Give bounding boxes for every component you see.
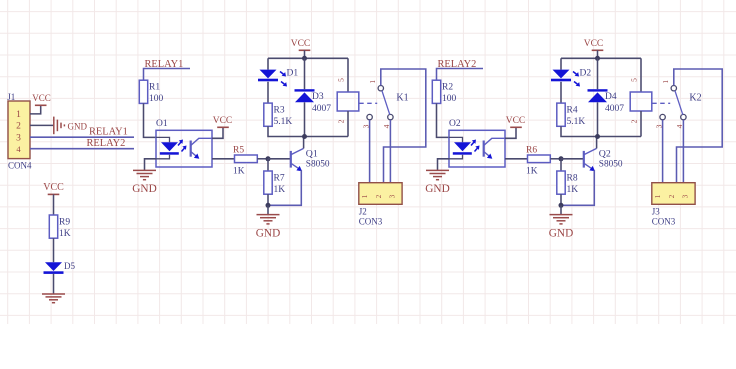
- svg-text:VCC: VCC: [213, 116, 233, 126]
- wire ground node down: [560, 205, 562, 214]
- junction ground node: [266, 203, 271, 208]
- svg-text:1K: 1K: [274, 185, 286, 195]
- svg-text:3: 3: [16, 134, 21, 144]
- LED D2: [551, 69, 591, 87]
- wire opto collector to VCC: [212, 127, 223, 138]
- wire left branch to D1: [267, 58, 269, 69]
- svg-text:VCC: VCC: [43, 182, 64, 193]
- wire D5 to ground: [53, 274, 55, 294]
- svg-text:Q2: Q2: [599, 149, 611, 160]
- svg-text:D1: D1: [287, 69, 299, 79]
- wire top rail: [268, 57, 348, 59]
- wire base node to R8: [560, 159, 562, 171]
- svg-text:1K: 1K: [59, 229, 71, 239]
- wire net RELAY2 stub: [437, 69, 484, 81]
- svg-text:R5: R5: [233, 145, 244, 155]
- svg-text:1K: 1K: [526, 167, 538, 177]
- wire Q2 emitter to ground node: [561, 170, 594, 205]
- ground below opto: [132, 170, 156, 195]
- svg-text:GND: GND: [549, 227, 573, 239]
- wire K2 common loop: [674, 69, 722, 183]
- svg-text:5: 5: [630, 78, 639, 82]
- wire R1 to opto anode: [144, 103, 157, 137]
- wire net RELAY1 stub: [144, 69, 191, 81]
- resistor R1 100: [139, 80, 163, 104]
- wire R5 to base node: [257, 158, 268, 160]
- power VCC at opto: [506, 116, 526, 127]
- svg-text:D3: D3: [312, 92, 324, 102]
- wire K1 pin3 down: [369, 120, 371, 183]
- wire Q2 collector: [596, 137, 598, 149]
- wire D3 branch: [304, 58, 306, 89]
- svg-text:1K: 1K: [567, 185, 579, 195]
- wire R2 to opto anode: [437, 103, 450, 137]
- wire K1 pin4 down: [389, 120, 391, 183]
- svg-text:R2: R2: [442, 83, 453, 93]
- svg-text:R3: R3: [274, 106, 285, 116]
- connector J2 CON3: [359, 183, 402, 227]
- ground below opto: [425, 170, 449, 195]
- resistor R6 1K: [526, 145, 550, 176]
- svg-text:GND: GND: [132, 183, 156, 195]
- svg-text:R9: R9: [59, 217, 70, 227]
- LED D1: [258, 69, 298, 87]
- svg-text:RELAY1: RELAY1: [89, 126, 128, 137]
- svg-text:1: 1: [368, 80, 377, 84]
- svg-text:100: 100: [442, 94, 457, 104]
- svg-text:2: 2: [630, 119, 639, 123]
- wire J1 pin1 to VCC: [30, 105, 41, 114]
- wire R7 to ground node: [267, 194, 269, 205]
- relay coil K1: [337, 78, 359, 124]
- wire opto emitter to R6: [505, 158, 528, 160]
- svg-text:K2: K2: [689, 93, 701, 104]
- svg-text:2: 2: [375, 194, 383, 198]
- junction top rail: [302, 56, 307, 61]
- svg-text:1: 1: [361, 194, 369, 198]
- wire coil feed: [640, 58, 642, 92]
- svg-text:VCC: VCC: [32, 93, 51, 103]
- svg-text:VCC: VCC: [506, 116, 526, 126]
- optocoupler O2: [449, 119, 505, 167]
- ground below D5: [42, 294, 65, 303]
- resistor R4 5.1K: [557, 103, 586, 127]
- power VCC at J1: [32, 93, 51, 105]
- wire R3 to bottom rail: [268, 126, 348, 136]
- optocoupler O1: [156, 119, 212, 167]
- svg-text:R7: R7: [274, 173, 285, 183]
- svg-text:2: 2: [16, 122, 21, 132]
- wire opto cathode to ground: [145, 159, 157, 171]
- wire D1 to R3: [267, 82, 269, 103]
- wire R6 to base node: [550, 158, 561, 160]
- svg-text:O1: O1: [156, 119, 168, 129]
- wire K1 common loop: [381, 69, 426, 183]
- svg-text:R8: R8: [567, 173, 578, 183]
- ground port GND at J1 (sideways): [54, 117, 88, 135]
- resistor R8 1K: [557, 171, 578, 195]
- wire D4 branch: [597, 58, 599, 89]
- wire base node to R7: [267, 159, 269, 171]
- relay contacts K1: [359, 80, 408, 129]
- svg-text:VCC: VCC: [584, 39, 604, 49]
- resistor R5 1K: [233, 145, 257, 176]
- wire R4 to bottom rail: [561, 126, 641, 136]
- svg-text:R4: R4: [567, 106, 578, 116]
- svg-text:3: 3: [389, 194, 397, 198]
- wire Q1 collector: [303, 137, 305, 149]
- resistor R9 1K: [49, 215, 70, 239]
- svg-text:GND: GND: [256, 227, 280, 239]
- wire J1 pin3 (net RELAY1): [30, 136, 134, 138]
- svg-text:4: 4: [382, 124, 391, 128]
- svg-text:2: 2: [337, 119, 346, 123]
- wire VCC riser: [597, 50, 599, 58]
- svg-text:S8050: S8050: [599, 159, 623, 169]
- svg-text:R1: R1: [149, 83, 160, 93]
- wire top rail: [561, 57, 641, 59]
- junction ground node: [559, 203, 564, 208]
- wire R8 to ground node: [560, 194, 562, 205]
- svg-text:GND: GND: [68, 122, 88, 132]
- wire R9 to D5: [53, 238, 55, 262]
- transistor Q1 S8050: [291, 148, 330, 171]
- connector J1 CON4: [7, 92, 32, 171]
- junction bottom rail: [302, 134, 307, 139]
- wire K2 pin4 down: [682, 120, 684, 183]
- svg-text:K1: K1: [396, 93, 408, 104]
- svg-text:1: 1: [654, 194, 662, 198]
- wire left branch to D2: [560, 58, 562, 69]
- svg-text:5.1K: 5.1K: [274, 117, 293, 127]
- svg-text:J1: J1: [7, 92, 15, 102]
- junction base node: [266, 156, 271, 161]
- svg-text:J2: J2: [359, 207, 367, 217]
- wire D2 to R4: [560, 82, 562, 103]
- ground below R8: [549, 215, 573, 240]
- svg-text:4007: 4007: [312, 104, 331, 114]
- wire VCC riser: [304, 50, 306, 58]
- junction base node: [559, 156, 564, 161]
- svg-text:5: 5: [337, 78, 346, 82]
- wire base node to Q2: [561, 158, 583, 160]
- svg-text:S8050: S8050: [306, 159, 330, 169]
- svg-text:Q1: Q1: [306, 149, 318, 160]
- resistor R3 5.1K: [264, 103, 293, 127]
- svg-text:D2: D2: [580, 69, 592, 79]
- wire opto cathode to ground: [438, 159, 450, 171]
- junction top rail: [595, 56, 600, 61]
- wire opto emitter to R5: [212, 158, 235, 160]
- svg-text:100: 100: [149, 94, 164, 104]
- wire VCC to R9: [53, 194, 55, 215]
- diode D3 4007: [295, 89, 332, 114]
- power VCC top of channel: [584, 39, 604, 50]
- resistor R2 100: [432, 80, 456, 104]
- wire coil to bottom rail: [347, 111, 349, 137]
- svg-text:1: 1: [16, 110, 21, 120]
- svg-text:CON4: CON4: [8, 161, 32, 171]
- svg-text:CON3: CON3: [652, 217, 676, 227]
- wire K2 pin3 down: [662, 120, 664, 183]
- diode D4 4007: [588, 89, 625, 114]
- relay coil K2: [630, 78, 652, 124]
- wire ground node down: [267, 205, 269, 214]
- wire base node to Q1: [268, 158, 290, 160]
- transistor Q2 S8050: [584, 148, 623, 171]
- svg-text:1: 1: [661, 80, 670, 84]
- svg-text:D4: D4: [605, 92, 617, 102]
- svg-text:J3: J3: [652, 207, 661, 217]
- wire opto collector to VCC: [505, 127, 516, 138]
- wire J1 pin4 (net RELAY2): [30, 148, 134, 150]
- svg-text:R6: R6: [526, 145, 537, 155]
- svg-text:1K: 1K: [233, 167, 245, 177]
- svg-text:VCC: VCC: [291, 39, 311, 49]
- svg-text:GND: GND: [425, 183, 449, 195]
- svg-text:CON3: CON3: [359, 217, 383, 227]
- resistor R7 1K: [264, 171, 285, 195]
- power VCC top of channel: [291, 39, 311, 50]
- wire coil to bottom rail: [640, 111, 642, 137]
- wire Q1 emitter to ground node: [268, 170, 301, 205]
- wire coil feed: [347, 58, 349, 92]
- ground below R7: [256, 215, 280, 240]
- power VCC at opto: [213, 116, 233, 127]
- svg-text:O2: O2: [449, 119, 461, 129]
- svg-text:5.1K: 5.1K: [567, 117, 586, 127]
- svg-text:3: 3: [682, 194, 690, 198]
- relay contacts K2: [652, 80, 701, 129]
- power VCC above R9: [43, 182, 64, 194]
- svg-text:D5: D5: [64, 261, 75, 271]
- svg-text:4007: 4007: [605, 104, 624, 114]
- svg-text:2: 2: [668, 194, 676, 198]
- diode D5: [44, 261, 76, 274]
- wire J1 pin2 to ground port: [30, 124, 53, 126]
- svg-text:4: 4: [675, 124, 684, 128]
- connector J3 CON3: [652, 183, 695, 227]
- junction bottom rail: [595, 134, 600, 139]
- svg-text:RELAY2: RELAY2: [87, 138, 126, 149]
